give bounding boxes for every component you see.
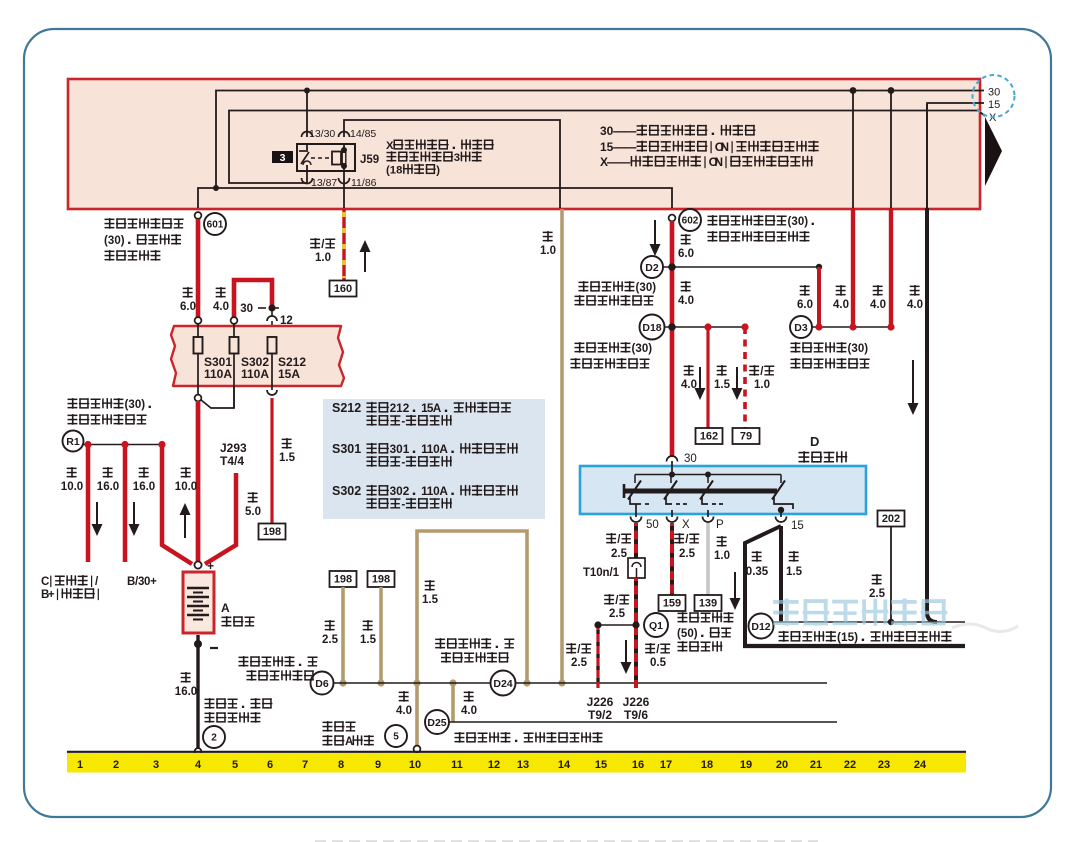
connector J226 T9/2 (587, 695, 614, 722)
svg-text:2.5: 2.5 (322, 634, 339, 646)
connector Q1 (644, 613, 668, 637)
wire 15 distribution bus (743, 644, 965, 648)
svg-text:301: 301 (390, 442, 410, 456)
svg-text:79: 79 (740, 431, 752, 443)
flow arrow right (985, 117, 1002, 186)
svg-text:11/86: 11/86 (351, 177, 377, 189)
relay J59 coil (311, 147, 347, 169)
svg-text:16.0: 16.0 (175, 686, 197, 698)
svg-text:10.0: 10.0 (175, 481, 197, 493)
svg-text:30: 30 (988, 87, 1000, 99)
connector D2 (641, 256, 822, 278)
label node 601 (104, 218, 184, 261)
label ground point 5 (323, 721, 374, 748)
label D3 (791, 342, 870, 369)
switch lower contact 50 (630, 497, 652, 504)
label node 602 (708, 215, 814, 242)
ignition switch designator (799, 434, 848, 463)
svg-text:2: 2 (211, 733, 217, 744)
switch wiper 15 (772, 481, 785, 500)
svg-text:(30): (30) (632, 343, 653, 355)
svg-text:5.0: 5.0 (245, 506, 261, 518)
svg-text:6: 6 (267, 759, 273, 771)
terminal exit marker (dashed circle) (973, 75, 1015, 117)
wire red/black 2.5 (to J226 T9/2) (566, 628, 598, 688)
svg-text:7: 7 (302, 759, 308, 771)
svg-text:0.5: 0.5 (650, 657, 667, 669)
switch wiper 50 (628, 481, 641, 500)
connector box 198 (S212 feed) (259, 524, 286, 540)
bus X (229, 111, 997, 184)
connector at S302 top (231, 317, 238, 324)
node junction on bus 30 (red 4.0 tap a) (850, 87, 857, 94)
wire black 2.5 (202 drop) (869, 527, 891, 622)
svg-text:2: 2 (113, 759, 119, 771)
svg-text:10: 10 (409, 759, 421, 771)
svg-text:ON: ON (715, 140, 729, 154)
svg-text:13/30: 13/30 (309, 128, 335, 140)
connector D12 (749, 614, 774, 639)
wire relay 85 to ground rail (344, 120, 560, 208)
svg-text:B/30+: B/30+ (127, 576, 157, 588)
relay J59 pin 11/86 (339, 167, 377, 208)
svg-text:S301: S301 (332, 442, 361, 456)
svg-text:17: 17 (660, 759, 672, 771)
svg-text:D25: D25 (427, 717, 446, 729)
ground rail D25 (449, 721, 837, 723)
relay J59 pin 14/85 (339, 128, 377, 149)
svg-text:X: X (386, 140, 394, 152)
connector J293 (220, 441, 247, 468)
svg-text:1: 1 (77, 759, 83, 771)
wire red 6.0 (D2 rail to D3) (797, 267, 819, 327)
connector box 202 (878, 511, 905, 527)
svg-text:4.0: 4.0 (396, 705, 412, 717)
svg-text:1.5: 1.5 (786, 566, 803, 578)
svg-text:11: 11 (451, 759, 463, 771)
svg-text:P: P (716, 519, 724, 531)
svg-text:602: 602 (682, 216, 699, 227)
svg-text:16.0: 16.0 (133, 481, 155, 493)
legend S212 (332, 401, 511, 428)
relay J59 pin 13/30 (302, 91, 336, 151)
wire red 1.5 to 198 (272, 398, 296, 524)
wire black 0.35 (15) (745, 526, 781, 644)
wire red 10.0 battery main (175, 401, 198, 562)
connector D3 (790, 316, 895, 338)
svg-text:4.0: 4.0 (870, 299, 886, 311)
connector D24 (491, 671, 516, 696)
wire red 16.0 to B/30+ (97, 447, 140, 562)
fuse S212 (268, 337, 307, 390)
svg-text:T9/2: T9/2 (588, 708, 612, 722)
connector box 79 (733, 428, 760, 444)
wire red 6.0 (601 to S301) (180, 219, 198, 317)
svg-text:1.0: 1.0 (540, 245, 556, 257)
svg-text:D12: D12 (751, 621, 770, 633)
current track band (67, 753, 966, 773)
svg-text:A: A (221, 601, 230, 615)
svg-text:110A: 110A (204, 367, 232, 381)
relay designator J59 (360, 154, 379, 166)
connector D18 (640, 315, 749, 340)
svg-text:(18: (18 (386, 165, 402, 177)
node brown b (377, 679, 384, 686)
wire red 6.0 ignition main (650, 220, 695, 456)
svg-text:Q1: Q1 (649, 620, 663, 632)
svg-text:-: - (401, 414, 405, 428)
svg-text:1.0: 1.0 (714, 550, 730, 562)
relay J59 pin 13/87 (302, 165, 338, 189)
svg-text:2.5: 2.5 (679, 548, 696, 560)
wire brown 1.0 from relay plate (540, 209, 562, 683)
svg-text:50: 50 (646, 519, 659, 531)
svg-text:21: 21 (810, 759, 822, 771)
svg-text:T10n/1: T10n/1 (583, 567, 620, 579)
caption (cut off at bottom edge) (315, 840, 818, 842)
wire black 16.0 battery ground (175, 635, 198, 748)
wire brown 4.0 jumper (396, 679, 477, 722)
svg-text:30: 30 (240, 303, 253, 315)
connector box 198 a (330, 571, 357, 587)
svg-text:22: 22 (844, 759, 856, 771)
switch internal bus (635, 472, 781, 484)
svg-text:302: 302 (390, 484, 410, 498)
svg-text:1.0: 1.0 (754, 379, 770, 391)
svg-text:J293: J293 (220, 441, 247, 455)
ground connector at track (195, 748, 202, 755)
svg-text:30: 30 (684, 453, 697, 465)
node brown 1.0 end (558, 679, 565, 686)
svg-text:5: 5 (232, 759, 238, 771)
wire grey 1.0 (P) (708, 523, 730, 595)
node junction bus30/601 (213, 185, 219, 191)
svg-text:1.0: 1.0 (315, 252, 331, 264)
svg-text:S302: S302 (332, 484, 361, 498)
svg-text:6.0: 6.0 (180, 301, 196, 313)
svg-text:15: 15 (595, 759, 607, 771)
svg-text:D: D (810, 434, 819, 449)
connector T10n/1 (583, 558, 645, 579)
switch lower contact P (702, 497, 726, 504)
wire black/yellow 1.0 (relay 11/86 to 160) (310, 209, 370, 281)
svg-text:9: 9 (375, 759, 381, 771)
ground rail D6 (333, 682, 827, 684)
svg-text:13/87: 13/87 (311, 177, 337, 189)
svg-text:(30): (30) (104, 235, 125, 247)
svg-text:198: 198 (263, 526, 281, 538)
wire red 4.0 to 162 (681, 327, 708, 428)
wire red/white 1.0 to 79 (714, 327, 774, 428)
wire red 5.0 (205, 473, 261, 564)
svg-text:2.5: 2.5 (869, 588, 886, 600)
node junction on bus 30 (red 4.0 tap b) (888, 87, 895, 94)
svg-text:14/85: 14/85 (350, 128, 376, 140)
fuse legend panel (323, 399, 545, 519)
node brown loop (523, 679, 530, 686)
switch output P (703, 510, 725, 531)
node brown a (339, 679, 346, 686)
node 30 junction (240, 303, 279, 315)
svg-text:159: 159 (663, 598, 681, 610)
svg-text:-: - (401, 497, 405, 511)
svg-text:19: 19 (740, 759, 752, 771)
node R1-b (121, 441, 128, 448)
switch bar (624, 484, 777, 498)
connector D25 (425, 710, 449, 734)
svg-text:110A: 110A (421, 442, 448, 456)
svg-text:X: X (682, 519, 690, 531)
svg-text:20: 20 (776, 759, 788, 771)
svg-text:4.0: 4.0 (213, 301, 229, 313)
svg-text:4.0: 4.0 (681, 379, 697, 391)
wire red/black 0.5 (to J226 T9/6) (621, 640, 671, 674)
wire red/black 2.5 (below T10n/1) (604, 578, 636, 688)
svg-text:S212: S212 (332, 401, 361, 415)
svg-text:8: 8 (338, 759, 344, 771)
label D18 (571, 342, 653, 369)
switch lower contact 15 (774, 497, 793, 513)
svg-text:1.5: 1.5 (714, 379, 731, 391)
wire black/yellow 2.5 (X) (672, 523, 699, 595)
svg-text:15: 15 (791, 520, 804, 532)
svg-text:15: 15 (988, 99, 1000, 111)
svg-text:110A: 110A (241, 367, 269, 381)
svg-text:T9/6: T9/6 (624, 708, 648, 722)
svg-text:J226: J226 (623, 695, 650, 709)
link S301-S302 outputs (201, 386, 234, 408)
svg-text:J226: J226 (587, 695, 614, 709)
svg-text:D18: D18 (642, 322, 661, 334)
bus 30 (198, 87, 1000, 209)
svg-text:1.5: 1.5 (279, 452, 296, 464)
connector 12 outlet arrow (267, 390, 277, 395)
svg-text:): ) (436, 165, 440, 177)
connector at S301 bottom (195, 395, 202, 402)
connector D6 (311, 672, 334, 695)
relay J59 outline (297, 144, 355, 171)
connector box 139 (695, 595, 722, 611)
label ground point 2 (205, 698, 273, 723)
relay J59 label (386, 139, 494, 176)
svg-text:4: 4 (195, 759, 202, 771)
bus 15 (927, 99, 1000, 208)
legend S302 (332, 484, 518, 511)
connector at track 10 (414, 746, 421, 753)
label ground rail lower (455, 732, 603, 743)
svg-text:3: 3 (153, 759, 159, 771)
label R1 (68, 398, 151, 425)
svg-text:23: 23 (878, 759, 890, 771)
svg-text:0.35: 0.35 (746, 566, 769, 578)
connector box 162 (696, 428, 723, 444)
battery negative node (194, 640, 218, 648)
svg-text:139: 139 (699, 598, 717, 610)
node 602 bolt connection (669, 209, 701, 231)
wire red 4.0 (D2-D18) (678, 281, 694, 307)
svg-text:6.0: 6.0 (797, 299, 813, 311)
ignition switch D body (580, 466, 866, 514)
svg-text:(30): (30) (636, 282, 657, 294)
battery positive node (194, 559, 214, 573)
node R1-a (84, 441, 91, 448)
connector box 198 b (368, 571, 395, 587)
fuse S301 (194, 324, 233, 396)
svg-text:198: 198 (372, 574, 390, 586)
switch wiper P (700, 481, 713, 500)
switch output X (667, 510, 691, 531)
svg-text:1.5: 1.5 (422, 594, 439, 606)
terminal legend text (600, 124, 819, 169)
svg-text:16: 16 (632, 759, 644, 771)
svg-text:16.0: 16.0 (97, 481, 119, 493)
wire red 4.0 (loop to S302) (213, 280, 272, 317)
svg-text:212: 212 (390, 401, 410, 415)
svg-text:24: 24 (914, 759, 927, 771)
svg-text:(30): (30) (848, 343, 869, 355)
svg-text:X: X (989, 112, 997, 124)
legend S301 (332, 442, 518, 469)
svg-text:6.0: 6.0 (678, 248, 694, 260)
node brown crossing (413, 679, 420, 686)
R1 bus (84, 444, 163, 446)
svg-text:J59: J59 (360, 154, 379, 166)
current track rail (67, 751, 966, 753)
wire 30-rail to node 602 (216, 188, 672, 208)
D12 rail (773, 619, 965, 625)
svg-text:110A: 110A (421, 484, 448, 498)
svg-text:-: - (401, 455, 405, 469)
svg-text:160: 160 (334, 283, 352, 295)
svg-text:15A: 15A (278, 367, 300, 381)
svg-text:R1: R1 (66, 436, 80, 448)
svg-text:10.0: 10.0 (61, 481, 83, 493)
ground point 5 (385, 725, 407, 747)
wire brown 2.5 (322, 587, 343, 683)
svg-text:15A: 15A (421, 401, 442, 415)
svg-text:198: 198 (334, 574, 352, 586)
connector J226 T9/6 (623, 695, 650, 722)
svg-text:1.5: 1.5 (360, 634, 377, 646)
switch output 15 (776, 510, 804, 532)
svg-text:4.0: 4.0 (833, 299, 849, 311)
fuse box plate (171, 326, 344, 386)
connector 12 (267, 311, 293, 337)
svg-text:(15): (15) (837, 630, 858, 644)
svg-text:5: 5 (393, 732, 399, 743)
svg-text:4.0: 4.0 (461, 705, 477, 717)
ground point 2 (203, 726, 225, 748)
node Q1 junction (594, 621, 639, 628)
svg-text:2.5: 2.5 (571, 657, 588, 669)
svg-text:(50): (50) (677, 628, 698, 640)
svg-text:3: 3 (454, 152, 460, 164)
svg-text:B+: B+ (41, 589, 55, 601)
flow arrow P (730, 572, 741, 610)
wire black 1.5 (15 to D12 rail) (781, 526, 803, 622)
watermark (773, 599, 1018, 632)
svg-text:3: 3 (280, 152, 286, 164)
wire red 10.0 to generator (61, 447, 103, 562)
svg-text:30: 30 (600, 124, 614, 138)
svg-text:12: 12 (488, 759, 500, 771)
relay J59 contact (299, 151, 311, 165)
svg-text:A: A (345, 736, 353, 748)
connector R1 (63, 431, 84, 452)
relay/fuse carrier plate (68, 79, 980, 209)
svg-text:162: 162 (700, 431, 718, 443)
svg-text:18: 18 (701, 759, 713, 771)
wire brown 1.5 (360, 587, 381, 683)
svg-text:D3: D3 (794, 322, 808, 334)
svg-text:4.0: 4.0 (678, 295, 694, 307)
svg-text:T4/4: T4/4 (220, 454, 244, 468)
node R1-c (158, 441, 165, 448)
wire black 4.0 (bus 15 drop) (907, 104, 937, 622)
switch output 50 (631, 504, 659, 531)
wire red 16.0 to battery (133, 447, 192, 564)
svg-text:15: 15 (600, 140, 614, 154)
wire red/black 2.5 (50) (606, 523, 636, 560)
fuse S302 (230, 324, 270, 408)
svg-text:X: X (600, 155, 608, 169)
connector at S301 top (195, 317, 202, 324)
switch input 30 (667, 453, 697, 474)
svg-text:D6: D6 (315, 678, 329, 690)
label generator terminals (41, 575, 157, 601)
svg-text:ON: ON (709, 155, 723, 169)
connector box 160 (330, 281, 357, 297)
label ground rail mid (435, 638, 514, 663)
switch wiper X (664, 481, 677, 500)
svg-text:4.0: 4.0 (907, 299, 923, 311)
svg-text:601: 601 (207, 220, 224, 231)
label D2 (575, 281, 657, 306)
switch lower contact X (666, 497, 690, 504)
relay position tag 3 (272, 151, 293, 164)
svg-text:202: 202 (882, 513, 900, 525)
label Q1 (677, 612, 733, 652)
node junction on bus 30 (13/30 tap) (304, 88, 310, 94)
svg-text:(30): (30) (125, 399, 146, 411)
svg-text:D2: D2 (645, 262, 659, 274)
svg-text:C: C (41, 576, 49, 588)
svg-text:2.5: 2.5 (611, 548, 628, 560)
wire red 4.0 b (870, 92, 891, 327)
label D12 (779, 630, 952, 644)
wire red 4.0 a (833, 92, 853, 327)
svg-text:D24: D24 (493, 678, 512, 690)
wire brown 1.5 A-pillar loop (417, 531, 527, 748)
svg-text:2.5: 2.5 (609, 608, 626, 620)
node 601 bolt connection (195, 212, 226, 235)
label ground rail upper (239, 656, 318, 681)
svg-text:(30): (30) (788, 216, 809, 228)
svg-text:13: 13 (517, 759, 529, 771)
svg-text:14: 14 (558, 759, 571, 771)
battery A (183, 572, 255, 633)
connector box 159 (659, 595, 686, 611)
